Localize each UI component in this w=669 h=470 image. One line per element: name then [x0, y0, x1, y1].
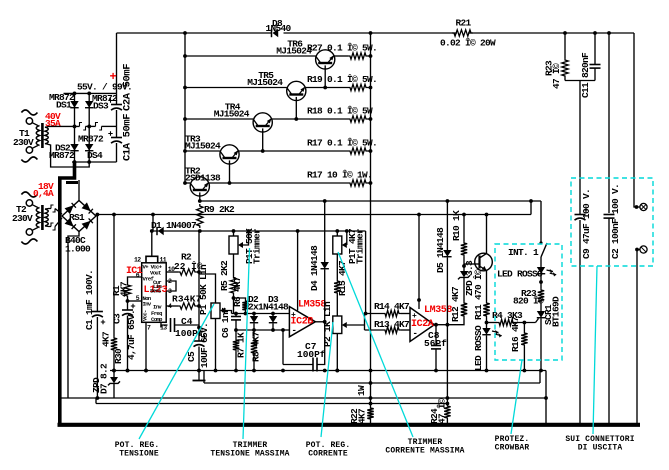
- diode DS2 MR872: [70, 144, 78, 151]
- thick negative bus wire from T1 bridge: [60, 162, 75, 424]
- svg-text:R6 4K7: R6 4K7: [232, 276, 243, 307]
- wire P1 wiper to plus net: [225, 311, 232, 314]
- wire base bus vertical (x=185): [184, 33, 186, 183]
- svg-text:R13 4K7: R13 4K7: [374, 319, 410, 330]
- svg-text:R30: R30: [113, 348, 124, 364]
- callout line TRIMMER CORRENTE MASSIMA: [338, 252, 413, 437]
- junction base bus at top rail: [183, 31, 187, 35]
- potentiometer P1 50K Lin: [211, 303, 220, 319]
- capacitor C6 1nF: [235, 314, 237, 317]
- svg-text:R18 0.1 Î© 5W: R18 0.1 Î© 5W: [307, 106, 373, 117]
- rail B risers: [203, 371, 205, 384]
- svg-text:4K7: 4K7: [119, 281, 130, 297]
- wire bridge AC mid rail with connector hooks: [58, 125, 80, 127]
- LED ROSSO left: [486, 323, 488, 329]
- wire jog joining node1 and node2: [530, 201, 532, 215]
- potentiometer P2 1K Lin: [333, 316, 342, 334]
- svg-text:CORRENTE: CORRENTE: [308, 450, 348, 459]
- junction bracket node3 drop: [364, 312, 368, 316]
- svg-text:C9 47uF 100 V.: C9 47uF 100 V.: [581, 189, 592, 259]
- bridge rectifier RS1 B40C 1.000: [62, 201, 96, 232]
- wire T1 secondary bottom lead: [45, 144, 89, 168]
- rail C riser to thick rail: [545, 371, 547, 399]
- svg-text:LM358: LM358: [424, 305, 452, 316]
- wire top positive rail: [117, 32, 272, 34]
- wire collector TR4 down: [262, 128, 264, 151]
- svg-text:R16 4K7: R16 4K7: [510, 316, 521, 352]
- svg-text:CORRENTE MASSIMA: CORRENTE MASSIMA: [385, 447, 464, 456]
- junction R3 on column: [197, 304, 201, 308]
- resistor emitter TR2: [348, 180, 368, 186]
- transistor TR3 MJ15024: [220, 145, 239, 164]
- callout line TRIMMER TENSIONE MASSIMA: [243, 248, 250, 439]
- capacitor C7 100Pf: [312, 358, 314, 372]
- junction AC mid DS3-DS4 column: [87, 125, 91, 129]
- svg-text:1N540: 1N540: [265, 23, 291, 34]
- capacitor C3 4.7uF 65V: [127, 301, 129, 310]
- junction bridge + DS3: [87, 92, 91, 96]
- diode D5 1N4148 column: [446, 201, 448, 250]
- svg-text:47 Î©: 47 Î©: [437, 398, 448, 424]
- wire node1 corner down to switch: [540, 201, 542, 242]
- wire P1T 4K7 bottom to R15: [336, 254, 338, 279]
- wire R1 column with C3: [128, 277, 142, 283]
- op-amp IC2B LM358: [289, 307, 315, 337]
- svg-text:56Pf: 56Pf: [424, 338, 447, 349]
- svg-text:100Pf: 100Pf: [297, 349, 326, 360]
- svg-text:C6 1nF: C6 1nF: [220, 307, 231, 338]
- capacitor C2A 50mF: [116, 93, 118, 104]
- capacitor C9 47uF 100V: [575, 214, 586, 216]
- wire emitter TR6 to resistor: [333, 55, 348, 57]
- diode D2 1N4148: [253, 314, 255, 317]
- switch INT. 1: [541, 243, 547, 257]
- rail D: [96, 403, 449, 405]
- junctions rail A: [112, 369, 116, 373]
- svg-text:4K7: 4K7: [101, 331, 112, 347]
- wire IC1 pin7 to ground rail: [145, 322, 147, 370]
- capacitor C4 100Pf: [161, 325, 168, 328]
- svg-text:R17 0.1 Î© 5W.: R17 0.1 Î© 5W.: [307, 138, 377, 149]
- wire emitter TR4 to resistor: [271, 118, 348, 120]
- P1T 4K7 wiper arrow and tie: [342, 242, 347, 248]
- svg-text:Vcc-: Vcc-: [142, 310, 149, 321]
- junction TR1 base node: [462, 264, 466, 268]
- junction node2 D1 branch: [151, 213, 155, 217]
- resistor R6 4K7 vertical: [242, 299, 248, 312]
- ground symbol: [197, 369, 201, 373]
- wire base branch TR3: [185, 150, 220, 152]
- rail C: [60, 397, 546, 399]
- wire node3 regulator supply (y=231): [153, 230, 366, 232]
- wire DS1-DS2 column: [74, 93, 76, 162]
- wire collector TR6 down: [324, 65, 326, 87]
- transistor TR5 MJ15024: [287, 81, 306, 100]
- ground rail A: [110, 370, 546, 372]
- rail B: [204, 382, 540, 384]
- junction R2 on column: [197, 270, 201, 274]
- capacitor C8 56Pf: [435, 325, 437, 345]
- capacitor C5 10UF 65V: [198, 338, 200, 341]
- svg-text:C2 100nF 100 V.: C2 100nF 100 V.: [610, 184, 621, 259]
- svg-text:R11 470 Î©: R11 470 Î©: [473, 269, 484, 320]
- wire R30 column: [113, 215, 115, 337]
- svg-text:R9 2K2: R9 2K2: [204, 204, 235, 215]
- junction R5 bottom: [232, 296, 236, 300]
- wire R6 elbow: [234, 298, 246, 299]
- junction R9 bottom on node3: [198, 229, 202, 233]
- junction C4 on column: [197, 326, 201, 330]
- resistor R2 22 ohm: [166, 271, 178, 273]
- wire DS3-DS4 column: [88, 93, 90, 162]
- resistor R14 4K7: [365, 313, 384, 315]
- resistor R23 820 ohm vertical: [538, 288, 544, 304]
- junction below LED: [539, 280, 543, 284]
- svg-text:R14 4K7: R14 4K7: [374, 301, 410, 312]
- wire P1 top to sense column: [199, 274, 216, 303]
- wire IC1 pin13 stub: [160, 322, 162, 327]
- P2 wiper arrow: [342, 322, 347, 328]
- wire node2 aux rail from RS1 (y=214.5): [96, 214, 531, 216]
- svg-text:R5 2K2: R5 2K2: [219, 260, 230, 291]
- svg-text:MR872: MR872: [78, 134, 104, 145]
- wire IC1 pins 2-3 bracket: [166, 281, 176, 291]
- diode D3 1N4148: [272, 314, 274, 317]
- wire IC2A output: [434, 324, 447, 326]
- svg-text:MJ15024: MJ15024: [247, 77, 283, 88]
- resistor R10 1K vertical: [461, 241, 467, 257]
- svg-text:C3: C3: [112, 313, 123, 324]
- svg-text:LED ROSSO: LED ROSSO: [497, 269, 543, 280]
- resistor R3 4K7: [166, 305, 178, 307]
- resistor R9 2K2 vertical: [197, 204, 203, 228]
- resistor R13 4K7: [365, 329, 384, 331]
- wire collector TR5 down: [295, 97, 297, 119]
- connector hooks on AC mid rail: [80, 123, 83, 127]
- svg-text:Comp: Comp: [151, 316, 163, 323]
- terminal plus output: [640, 203, 647, 210]
- wire riser from T1 bridge + to top rail: [116, 33, 118, 93]
- wire P2 wiper to R13/R14 bracket: [347, 324, 365, 326]
- junction C6 bottom: [234, 328, 238, 332]
- svg-text:R7 1K: R7 1K: [236, 332, 247, 358]
- wire R23/C11 merge bracket: [565, 80, 595, 82]
- svg-text:0.02 Î© 20W: 0.02 Î© 20W: [440, 38, 496, 49]
- wire P1T bottom to R5: [233, 254, 235, 276]
- wire P1T 4K7 top stub: [336, 231, 338, 236]
- svg-text:INT. 1: INT. 1: [508, 247, 539, 258]
- resistor R11 470 ohm vertical: [483, 301, 489, 318]
- svg-text:C1A 50mF: C1A 50mF: [122, 114, 134, 161]
- transistor TR6 MJ15024: [316, 50, 335, 69]
- svg-text:IC2B: IC2B: [291, 317, 314, 328]
- svg-text:Trimmer: Trimmer: [252, 228, 263, 264]
- capacitor C1 1mF 100V: [92, 311, 103, 313]
- resistor R1 4K7 vertical: [124, 283, 130, 298]
- svg-text:DI USCITA: DI USCITA: [578, 444, 623, 453]
- svg-text:C4: C4: [181, 316, 193, 327]
- diode D8 1N540: [271, 29, 273, 37]
- svg-text:1.000: 1.000: [65, 244, 91, 255]
- wire TR1 emitter to R11: [486, 271, 488, 302]
- dashed box output capacitors: [571, 178, 653, 266]
- svg-text:IC2A: IC2A: [411, 319, 434, 330]
- wire from minus terminal down: [635, 248, 639, 252]
- svg-text:R17 10 Î© 1W.: R17 10 Î© 1W.: [307, 170, 372, 181]
- resistor R7 1K vertical: [235, 330, 237, 338]
- junction P1T 50K on node3: [232, 229, 236, 233]
- wire IC1 pins 12 11 tie: [146, 256, 158, 263]
- zener D7 ZPD 8.2: [113, 371, 115, 378]
- transistor TR1 crowbar driver: [475, 253, 493, 271]
- svg-text:MJ15024: MJ15024: [214, 109, 250, 120]
- wire to plus output terminal: [634, 33, 640, 207]
- wire IC1 supply riser from node3: [151, 231, 153, 256]
- svg-text:0,4A: 0,4A: [33, 188, 54, 199]
- svg-text:Sens: Sens: [150, 288, 161, 295]
- svg-text:R15 4K7: R15 4K7: [337, 260, 348, 296]
- svg-text:D1 1N4007: D1 1N4007: [151, 220, 197, 231]
- wire emitter TR3 to resistor: [238, 150, 348, 152]
- svg-text:RS1: RS1: [69, 212, 85, 223]
- svg-text:Inv: Inv: [143, 301, 152, 308]
- svg-text:C11 820nF: C11 820nF: [580, 52, 591, 98]
- trimmer P1T 50K: [229, 236, 238, 254]
- wire bridge - node (bottom): [72, 161, 117, 163]
- svg-text:R27 0.1 Î© 5W.: R27 0.1 Î© 5W.: [307, 43, 377, 54]
- junction bridge - DS4: [87, 160, 91, 164]
- transistor TR4 MJ15024: [253, 113, 272, 132]
- transformer T1 230V primary: [26, 118, 32, 124]
- svg-text:Trimmer: Trimmer: [355, 228, 366, 264]
- LED ROSSO crowbar: [537, 267, 545, 274]
- svg-text:D5 1N4148: D5 1N4148: [435, 227, 446, 273]
- junction R24 rails: [446, 396, 450, 400]
- wire base branch TR6: [185, 55, 316, 57]
- svg-text:IC1: IC1: [126, 266, 143, 277]
- callout line POT REG CORRENTE: [321, 322, 333, 437]
- svg-text:D7 8.2: D7 8.2: [99, 363, 110, 394]
- wire output sense column x=199: [198, 231, 200, 338]
- svg-text:DS3: DS3: [93, 101, 109, 112]
- wire node3 corner down at x=365.6: [365, 231, 367, 314]
- wire base branch TR5: [185, 87, 287, 89]
- svg-text:-: -: [413, 329, 418, 339]
- resistor emitter TR5: [348, 84, 368, 90]
- svg-text:+: +: [110, 70, 117, 84]
- svg-text:TENSIONE: TENSIONE: [119, 450, 159, 459]
- svg-text:12: 12: [134, 257, 141, 264]
- SCR1 BT169D thyristor: [540, 304, 542, 311]
- svg-text:10UF 65V.: 10UF 65V.: [199, 323, 210, 368]
- wire node1 from TR2 collector to crowbar (y=201): [200, 200, 541, 202]
- callout line SUI CONNETTORI: [593, 266, 597, 434]
- junction R6 bottom on plus net: [244, 312, 248, 316]
- svg-text:R21: R21: [455, 18, 471, 29]
- wire T2 secondary to RS1 with hooks: [45, 208, 51, 211]
- trimmer P1T 4K7: [333, 236, 342, 254]
- svg-text:230V: 230V: [13, 137, 34, 148]
- junction R16 top: [523, 321, 527, 325]
- junction node1 x531: [529, 199, 533, 203]
- wire RS1 bottom vertex down to rail: [68, 232, 79, 399]
- diode D4 1N4148 column from node1: [324, 201, 326, 262]
- capacitor C11 820nF: [594, 33, 596, 64]
- wire C7 feedback path: [317, 322, 325, 365]
- resistor emitter TR3: [348, 148, 368, 154]
- junction IC2B output node: [323, 320, 327, 324]
- svg-text:2SD1138: 2SD1138: [185, 173, 221, 184]
- svg-text:D4 1N4148: D4 1N4148: [309, 245, 320, 291]
- resistor R8 4K7 vertical: [253, 330, 255, 339]
- wire R13/R14 input bracket: [364, 314, 366, 331]
- svg-text:BT169D: BT169D: [551, 296, 562, 327]
- P1T 50K wiper arrow and tie: [238, 242, 243, 248]
- wire bridge + node (top): [64, 92, 117, 94]
- svg-text:4K7: 4K7: [357, 408, 368, 424]
- thick bottom border (negative output rail): [58, 423, 641, 427]
- resistor R12 4K7 vertical: [461, 301, 467, 318]
- junction P1T 4K7 on node3: [335, 229, 339, 233]
- svg-text:R19 0.1 Î© 5W.: R19 0.1 Î© 5W.: [307, 74, 377, 85]
- resistor R5 2K2 vertical: [230, 276, 236, 295]
- svg-text:1W: 1W: [356, 385, 367, 396]
- resistor R21 0.02 ohm 20W: [452, 30, 473, 36]
- transistor TR2 2SD1138: [190, 177, 209, 196]
- resistor R16 4K7 vertical: [523, 323, 525, 332]
- wire R12 bottom elbow to output node: [447, 318, 464, 325]
- wire P1T 50K top stub: [233, 231, 235, 236]
- diode DS4 MR872: [85, 144, 93, 151]
- resistor R23 47ohm vertical: [564, 33, 566, 58]
- wire C1 column: [96, 215, 98, 312]
- dashed box INT 1 crowbar: [495, 244, 562, 360]
- capacitor C1A 50mF: [116, 126, 118, 137]
- svg-text:TENSIONE MASSIMA: TENSIONE MASSIMA: [210, 450, 289, 459]
- wire collector TR2 down: [199, 192, 201, 201]
- callout line PROTEZ CROWBAR: [511, 360, 522, 434]
- svg-text:P1 50K Lin: P1 50K Lin: [198, 264, 209, 315]
- svg-text:2x1N4148: 2x1N4148: [248, 302, 289, 313]
- svg-text:-: -: [292, 326, 297, 336]
- svg-text:C2A 50mF: C2A 50mF: [122, 64, 134, 111]
- resistor R24 47 ohm: [444, 404, 450, 420]
- wire R1 bottom to pin5: [128, 300, 142, 302]
- P1 wiper arrow: [220, 308, 225, 314]
- capacitor C2 100nF 100V: [604, 214, 615, 216]
- svg-text:R8 4K7: R8 4K7: [251, 331, 262, 362]
- wire IC2B power from node3: [297, 231, 299, 311]
- svg-text:CROWBAR: CROWBAR: [495, 444, 530, 453]
- wire emitter TR2 to resistor: [208, 182, 348, 184]
- junction bridge + DS1: [73, 92, 77, 96]
- IC1 L123 regulator box: [142, 263, 167, 323]
- resistor R15 4K7 vertical: [334, 279, 340, 295]
- junction AC mid DS1-DS2 column: [73, 125, 77, 129]
- junction bridge - DS2: [73, 160, 77, 164]
- junction C11 top: [593, 31, 597, 35]
- wire plus net to IC2B: [232, 313, 290, 315]
- junction R4 branch: [485, 321, 489, 325]
- thick minus mark below bridge: [66, 181, 78, 184]
- junction R22 rails: [369, 396, 373, 400]
- wire IC2B output to D4 node: [315, 321, 324, 323]
- svg-text:820 Î©: 820 Î©: [513, 296, 544, 307]
- callout line POT REG TENSIONE: [139, 304, 214, 439]
- svg-text:DS1: DS1: [56, 100, 72, 111]
- wire node2 drop to D1: [152, 215, 154, 232]
- svg-text:230V: 230V: [12, 213, 33, 224]
- wire T1 secondary top to bridge: [45, 126, 58, 127]
- wire C2 column: [608, 33, 610, 213]
- svg-text:R12 4K7: R12 4K7: [450, 286, 461, 322]
- resistor emitter TR6: [348, 53, 368, 59]
- wire P2 bottom to rail: [336, 334, 338, 371]
- diode DS3 MR872: [85, 101, 93, 108]
- resistor R30 4K7 vertical: [111, 336, 117, 352]
- wire output plus column through C9: [579, 83, 581, 214]
- terminal minus output: [640, 246, 647, 253]
- resistor R4 3K3: [487, 322, 498, 324]
- junction IC2A output on D5 column: [446, 323, 450, 327]
- SCR1 gate wire: [536, 319, 539, 323]
- svg-text:DS4: DS4: [87, 150, 103, 161]
- diode D1 1N4007: [156, 227, 158, 235]
- wire base branch TR2: [185, 182, 190, 184]
- junction emitter bus at top rail: [369, 31, 373, 35]
- diode DS1 MR872: [70, 101, 78, 108]
- wire long vertical x=370.5 continues; R22 resistor: [367, 406, 373, 421]
- transformer T2 230V primary: [26, 200, 32, 206]
- wire IC2A power from node2: [418, 215, 420, 310]
- svg-text:MR872: MR872: [49, 150, 75, 161]
- junction R23 top: [563, 31, 567, 35]
- svg-text:47 Î©: 47 Î©: [551, 63, 562, 89]
- op-amp IC2A LM358: [410, 308, 434, 342]
- wire emitter collection bus (x=370.5) full height with R22: [370, 33, 372, 406]
- svg-text:11: 11: [160, 257, 167, 264]
- zener ZPD 3.3: [463, 266, 465, 271]
- wire minus net to IC2B: [236, 329, 289, 331]
- wire RS1 top vertex up: [78, 180, 80, 201]
- wire base branch TR4: [185, 118, 253, 120]
- svg-text:MJ15024: MJ15024: [185, 141, 221, 152]
- wire P1 bottom to ground rail: [215, 319, 217, 371]
- wire R10 column from node2: [463, 215, 465, 242]
- wire emitter TR5 to resistor: [305, 87, 349, 89]
- svg-text:4,7uF 65V.: 4,7uF 65V.: [126, 310, 137, 360]
- svg-text:C1 1mF 100V.: C1 1mF 100V.: [84, 270, 95, 330]
- wire collector TR3 down: [229, 160, 231, 183]
- svg-text:R10 1K: R10 1K: [451, 210, 462, 241]
- svg-text:LED ROSSO: LED ROSSO: [473, 325, 484, 371]
- resistor emitter TR4: [348, 116, 368, 122]
